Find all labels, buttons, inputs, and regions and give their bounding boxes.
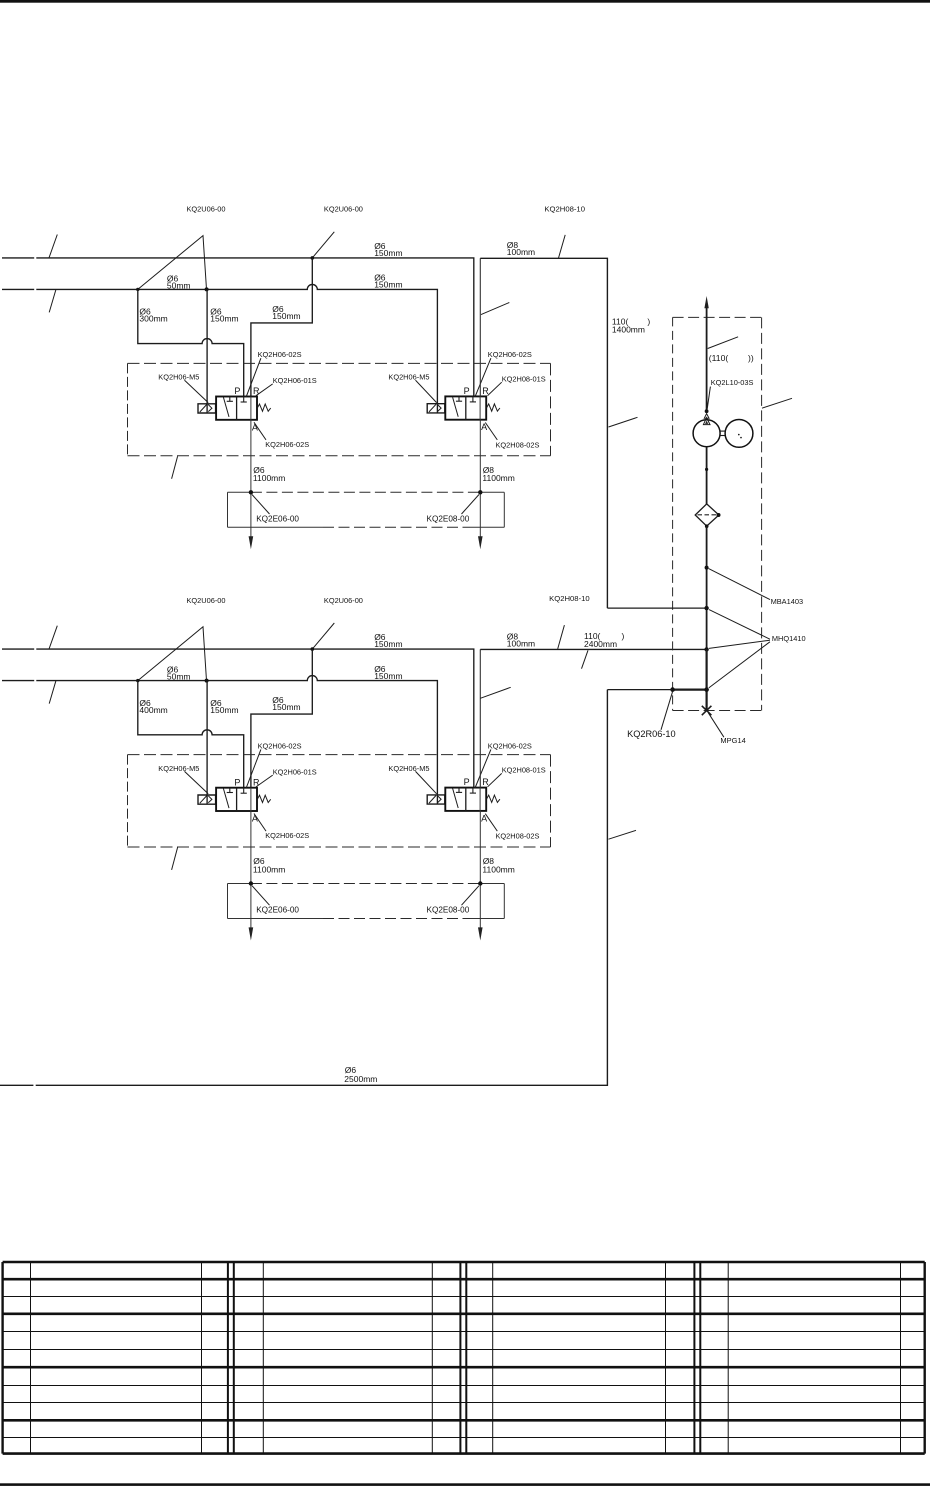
valve V2 left position flow path [453,397,459,417]
node: KQ2R06-10 junction [670,687,675,692]
leader: KQ2U06-00 #2 (assembly 2) [312,623,334,649]
svg-text:KQ2E06-00: KQ2E06-00 [256,515,299,524]
filter diamond [695,504,719,526]
manifold dashed enclosure (assembly 2) [128,754,551,756]
svg-text:P: P [234,777,240,787]
svg-text:KQ2U06-00: KQ2U06-00 [324,205,363,214]
node: bus junction x137.8 (assembly 2) [136,679,139,682]
tube O6 150mm pilot drop valve 1 (assembly 1) [206,289,208,412]
leader KQ2H08-10 (assembly 2) [558,625,565,649]
air line below compressor [706,447,708,504]
svg-text:MHQ1410: MHQ1410 [772,634,806,643]
svg-text:(110(: (110( [709,353,729,363]
tube O8 100mm valve V2 R riser [479,258,481,396]
valve V1 right position port P stub [243,397,245,403]
arrow down O8 drop (assembly 1) [478,536,483,549]
svg-text:2400mm: 2400mm [584,639,617,649]
valve V4 solenoid coil [427,795,445,804]
leader slash to enclosure (assembly 1) [172,456,178,479]
leader KQ2H06-M5 valve 4 [416,771,437,793]
leader KQ2H06-M5 valve 2 [416,380,437,402]
leader slash under 2400mm label [582,650,589,668]
wire: supply bus lower (assembly 2) [2,680,34,682]
valve V2 right position port P stub [472,396,474,402]
svg-text:): ) [622,631,625,641]
break slash lower bus (assembly 1) [49,290,56,313]
svg-text:50mm: 50mm [167,280,191,290]
svg-text:KQ2H06-02S: KQ2H06-02S [265,831,309,840]
leader KQ2H08-10 (assembly 1) [559,235,566,258]
break slash upper bus (assembly 1) [49,235,57,259]
leader KQ2H06-M5 valve 1 [185,380,209,402]
filter bottom vertex dot [705,524,709,528]
tube O8 header lower (2400mm run) [480,648,707,650]
leader KQ2H06-02S valve 1 A [254,422,266,440]
leader KQ2E06-00 (assembly 2) [252,886,270,906]
leader slash (110( )) [708,337,738,349]
leader KQ2L10-03S [707,387,710,409]
air unit dashed enclosure [673,316,762,318]
marks inside motor circle [738,434,740,436]
air line upper segment [706,303,708,411]
svg-text:1400mm: 1400mm [612,325,645,335]
svg-text:KQ2H06-01S: KQ2H06-01S [273,767,317,776]
leader MHQ1410 from y608 node [709,610,770,640]
leader KQ2H06-02S valve 2 P [475,358,491,397]
valve V1 return spring [257,404,271,411]
svg-text:KQ2H08-02S: KQ2H08-02S [496,440,540,449]
svg-text:KQ2H06-M5: KQ2H06-M5 [388,373,429,382]
valve V2 return spring [486,404,500,411]
tube O6 2500mm left stub [0,1084,33,1086]
node: feed junction y608 [704,606,708,610]
node: bulkhead KQ2E06 (assembly 1) [249,490,253,494]
leader MBA1403 [709,569,770,600]
svg-text:KQ2L10-03S: KQ2L10-03S [711,378,754,387]
node: bus junction x206.5 (assembly 1) [205,287,209,291]
leader KQ2H06-M5 valve 3 [185,771,209,793]
tube O6 300mm branch (assembly 1) [138,289,244,396]
coupling between C1 and C2 [720,430,725,432]
svg-text:R: R [253,386,260,396]
svg-text:KQ2H08-02S: KQ2H08-02S [496,832,540,841]
valve V1 left position flow path [223,397,229,417]
valve V1 solenoid coil [198,404,216,413]
svg-text:MPG14: MPG14 [720,736,745,745]
tube O6 2500mm feed down [36,690,608,1086]
valve V3 return spring [257,795,271,802]
leader KQ2H06-01S valve 3 R [256,775,273,787]
node: MBA1403 junction [705,566,709,570]
parts list table [3,1261,925,1264]
svg-text:2500mm: 2500mm [344,1074,377,1084]
valve V2 R-A through line [479,396,481,419]
svg-text:KQ2U06-00: KQ2U06-00 [187,596,226,605]
node: bulkhead KQ2E08 (assembly 1) [478,490,482,494]
svg-text:KQ2E08-00: KQ2E08-00 [427,515,470,524]
valve V4 R-A through line [479,788,481,811]
leader KQ2H06-02S valve 1 P [246,358,261,397]
svg-text:KQ2H06-01S: KQ2H06-01S [273,376,317,385]
svg-text:): ) [647,317,650,327]
air line below filter [706,526,708,649]
valve V1 body [216,397,257,420]
svg-text:100mm: 100mm [507,247,535,257]
arrow down O6 drop (assembly 1) [249,536,254,549]
svg-text:KQ2H08-10: KQ2H08-10 [544,204,585,213]
air line lower thick segment [705,649,707,710]
svg-text:)): )) [748,353,754,363]
svg-text:150mm: 150mm [272,702,300,712]
svg-text:150mm: 150mm [374,248,402,258]
wire: supply bus lower (assembly 1) [2,288,34,290]
valve V4 return spring [486,795,500,802]
arrow down O6 drop (assembly 2) [249,927,254,940]
arrow down O8 drop (assembly 2) [478,927,483,940]
leader KQ2R06-10 [661,691,673,730]
tube O8 header to air unit (1400mm run) [480,258,607,608]
tube O8 100mm valve V4 R riser [479,649,481,787]
svg-text:P: P [464,386,470,396]
svg-text:KQ2H08-10: KQ2H08-10 [549,594,590,603]
svg-text:1100mm: 1100mm [253,864,285,874]
svg-text:KQ2H06-02S: KQ2H06-02S [258,741,302,750]
wire: supply bus upper (assembly 2) [2,648,34,650]
node: upper bus junction x312.3 (assembly 2) [311,647,315,651]
svg-text:KQ2H06-02S: KQ2H06-02S [488,350,532,359]
leader KQ2E08-00 (assembly 2) [462,886,480,906]
leader: KQ2U06-00 #2 (assembly 1) [312,232,334,258]
tube O6 1100mm drop valve 1 [250,420,252,538]
node: feed junction y649 [704,647,708,651]
leader KQ2H06-02S valve 4 P [475,749,491,788]
svg-text:P: P [464,777,470,787]
wire: 1400mm feed joins air line [607,607,706,609]
valve V4 left position flow path [453,788,459,808]
svg-text:1100mm: 1100mm [482,864,514,874]
valve V3 R-A through line [250,788,252,811]
node: bus junction x137.8 (assembly 1) [136,288,139,291]
valve V3 solenoid coil [198,795,216,804]
wire: supply bus upper (assembly 1) [2,257,34,259]
check-valve double triangle symbol [704,414,709,419]
leader KQ2H08-01S valve 2 R [488,382,502,395]
leader KQ2E06-00 (assembly 1) [252,495,270,515]
leader KQ2H08-01S valve 4 R [488,773,502,786]
air outlet arrow up [704,296,708,308]
node: bus junction x206.5 (assembly 2) [205,679,209,683]
svg-text:KQ2H06-02S: KQ2H06-02S [265,440,309,449]
valve V4 right position port P stub [472,788,474,794]
svg-text:150mm: 150mm [210,314,238,324]
leader slash on lower feed line [609,830,637,839]
leader: KQ2U06-00 #1 (assembly 2) [138,627,207,681]
tube O8 1100mm drop valve 2 [479,420,481,538]
valve V1 R-A through line [250,397,252,420]
manifold dashed enclosure (assembly 1) [128,362,551,364]
leader MHQ1410 from drain node [709,642,770,688]
node: bulkhead KQ2E08 (assembly 2) [478,881,482,885]
leader KQ2H06-01S valve 1 R [256,384,273,396]
leader slash at air unit right edge [762,398,792,408]
page bottom rule [0,1483,930,1486]
filter element dashes [698,514,717,516]
node: upper bus junction x312.3 (assembly 1) [311,256,315,260]
leader MPG14 [708,713,724,737]
svg-text:KQ2U06-00: KQ2U06-00 [187,205,226,214]
svg-text:KQ2H06-M5: KQ2H06-M5 [388,764,429,773]
svg-text:150mm: 150mm [374,280,402,290]
valve V3 body [216,788,257,811]
leader slash at O8 riser (assembly 1) [481,303,509,315]
leader KQ2H08-02S valve 2 A [485,423,497,440]
break slash lower bus (assembly 2) [49,681,56,704]
valve V3 left position flow path [223,789,229,809]
svg-text:R: R [253,777,260,787]
svg-text:MBA1403: MBA1403 [771,597,803,606]
svg-text:1100mm: 1100mm [482,473,514,483]
svg-text:50mm: 50mm [167,672,191,682]
valve V2 solenoid coil [427,404,445,413]
leader KQ2H06-02S valve 3 P [246,749,261,788]
leader KQ2E08-00 (assembly 1) [462,495,480,515]
tube O6 150mm from upper bus to valve 3 R (assembly 2) [251,649,312,788]
compressor circle C1 [693,420,720,447]
leader slash at O8 riser (assembly 2) [480,687,510,698]
tube O6 150mm from upper bus to valve 1 R (assembly 1) [251,258,312,397]
bulkhead strip box (assembly 2) [228,883,251,885]
svg-text:150mm: 150mm [210,705,238,715]
svg-text:KQ2H08-01S: KQ2H08-01S [502,766,546,775]
svg-text:KQ2R06-10: KQ2R06-10 [627,729,676,739]
svg-text:150mm: 150mm [374,639,402,649]
drain branch thick segment [673,688,707,690]
svg-text:KQ2H06-02S: KQ2H06-02S [258,350,302,359]
svg-text:150mm: 150mm [272,311,300,321]
leader KQ2H06-02S valve 3 A [254,814,266,832]
leader MHQ1410 from y649 node [709,640,770,648]
node: bulkhead KQ2E06 (assembly 2) [249,881,253,885]
svg-text:P: P [234,386,240,396]
leader slash on 1400mm line [609,417,638,427]
svg-text:KQ2E06-00: KQ2E06-00 [256,906,299,915]
motor circle C2 [725,420,753,448]
tube O6 150mm pilot drop valve 3 (assembly 2) [206,681,208,804]
tube O8 1100mm drop valve 4 [479,811,481,929]
leader: KQ2U06-00 #1 (assembly 1) [138,236,207,290]
svg-text:KQ2U06-00: KQ2U06-00 [324,596,363,605]
tube O6 1100mm drop valve 3 [250,811,252,929]
svg-text:100mm: 100mm [507,638,535,648]
svg-text:150mm: 150mm [374,671,402,681]
svg-text:KQ2H08-01S: KQ2H08-01S [502,375,546,384]
valve V4 body [445,788,486,811]
svg-text:KQ2H06-M5: KQ2H06-M5 [158,373,199,382]
svg-text:KQ2H06-M5: KQ2H06-M5 [158,764,199,773]
fitting KQ2L10-03S node dot [705,409,709,413]
filter right vertex dot [717,513,721,517]
leader slash to enclosure (assembly 2) [172,847,178,870]
svg-text:KQ2H06-02S: KQ2H06-02S [488,741,532,750]
svg-text:300mm: 300mm [139,314,167,324]
drain line to lower feed [607,689,672,691]
valve V3 right position port P stub [243,788,245,794]
svg-text:1100mm: 1100mm [253,473,285,483]
node: drain junction right [704,687,709,692]
svg-text:KQ2E08-00: KQ2E08-00 [427,906,470,915]
leader KQ2H08-02S valve 4 A [485,814,497,831]
node dot on air line [705,468,708,471]
valve V2 body [445,396,486,419]
page top border line [0,0,930,3]
bulkhead strip box (assembly 1) [228,491,251,493]
plug MPG14 X symbol [702,706,712,715]
break slash upper bus (assembly 2) [49,626,57,650]
tube O6 400mm branch (assembly 2) [138,681,244,788]
svg-text:400mm: 400mm [139,705,167,715]
